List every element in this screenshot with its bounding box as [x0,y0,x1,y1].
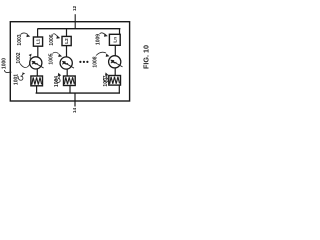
svg-text:FIG. 10: FIG. 10 [142,45,151,69]
svg-text:L2: L2 [64,38,69,44]
svg-text:1005: 1005 [49,53,55,64]
svg-text:1008: 1008 [92,56,98,67]
svg-text:Ln: Ln [112,37,117,43]
svg-text:14: 14 [72,108,78,114]
svg-text:1000: 1000 [2,58,8,69]
svg-text:1003: 1003 [17,34,23,45]
svg-text:1007: 1007 [103,75,109,86]
svg-text:1001: 1001 [14,74,20,85]
svg-text:1002: 1002 [16,52,22,63]
svg-text:12: 12 [72,6,78,12]
svg-text:1004: 1004 [54,76,60,87]
svg-text:1009: 1009 [96,34,102,45]
svg-text:L1: L1 [36,38,41,44]
svg-text:1006: 1006 [49,34,55,45]
